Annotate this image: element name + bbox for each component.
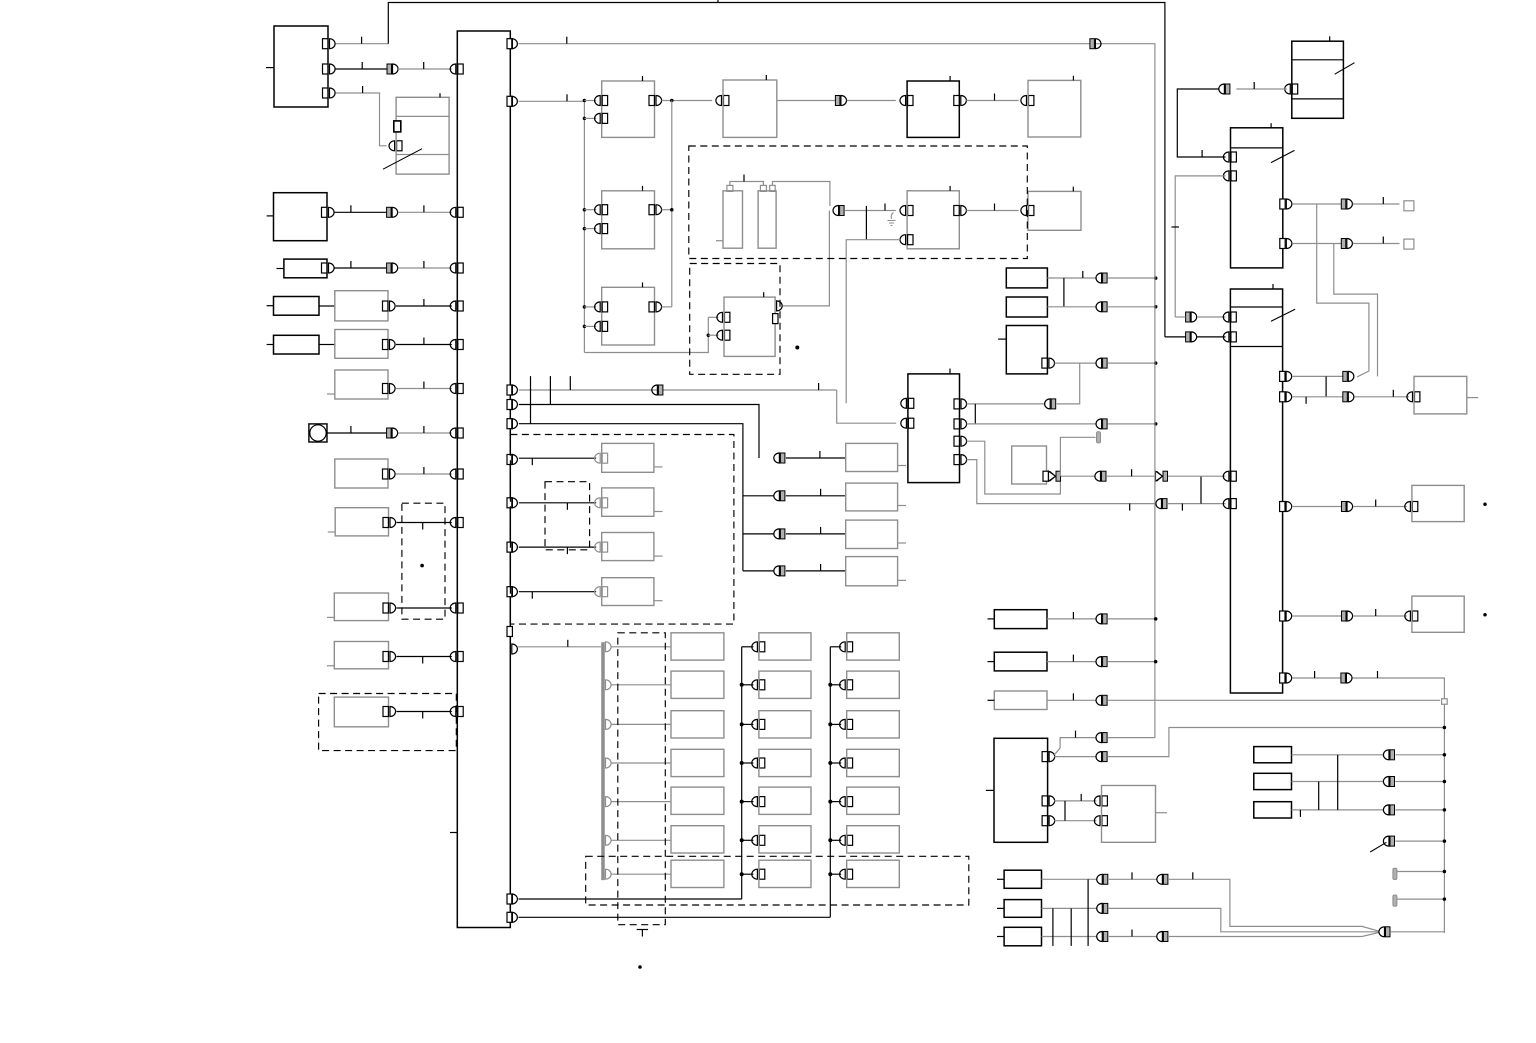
slash T3 [1271,309,1295,321]
connector J/B left 306 [450,301,463,311]
wire E5-E6 [966,94,1018,101]
node dot E-feed 118 [583,117,587,121]
connector C4 in [828,797,852,807]
wire E-link [319,305,335,307]
connector pair E2-E5 [835,96,846,106]
wire E8-E9 [966,204,1018,211]
wire Y1 b [1169,872,1380,931]
connector T2 out1 [1280,199,1292,209]
sensor Y3 [997,927,1042,946]
actuator G20 [846,443,898,471]
load V3 [1412,596,1464,632]
slash T1 [1335,63,1355,74]
wire to G3 [786,489,846,496]
terminal E7 out [773,301,783,324]
module R3 [998,326,1047,374]
bar tap 0 [606,642,672,652]
junction sq P3 [1442,699,1448,705]
wire E-feed elbow [584,317,708,352]
relay L [327,642,389,669]
connector pair M1 [1045,399,1056,409]
connector V2 in [1405,502,1418,512]
node dot 841 [1443,839,1447,843]
connector T1 in [1285,84,1298,94]
load V1 [1414,376,1467,414]
connector E1 in1 [584,96,607,106]
connector E4 in2 [584,321,607,331]
connector R3 out [1042,358,1055,368]
wire bus-G12 [519,547,596,554]
wire E-col2 vertical [671,101,673,307]
capacitor C1 [723,185,743,248]
connector pair G3 [774,491,785,501]
bar tap 5 [606,835,672,845]
connector pair X1 [1383,750,1394,760]
connector pair T2o1 [1341,199,1352,209]
wire U1 out1 [1054,756,1096,758]
dashed box DB4 [586,856,969,905]
stub V1 [1467,397,1478,399]
connector E7 in2 [708,330,730,340]
connector J/B right 917 [507,912,517,922]
connector J/B left 711 [450,707,463,717]
node dot E7 in2 [707,333,711,337]
connector E6 in [1021,96,1034,106]
lamp B3 [759,749,811,776]
connector pair Y1a [1097,874,1108,884]
connector T2 in1 [1223,152,1236,162]
connector E2 in [716,96,729,106]
connector E2 [383,301,396,311]
wire T2 in2 [1172,176,1226,317]
horn H [309,424,327,442]
slash T2 [1271,150,1295,162]
wire bus899 [519,898,742,900]
module T2 [1231,123,1283,268]
wire R2 [1047,306,1096,308]
wire M4 [967,460,1156,511]
wire X2 [1292,781,1385,783]
connector pair Y3b [1157,932,1168,942]
node dot P2 [1154,660,1158,664]
connector C2 in [828,719,852,729]
connector L [383,652,396,662]
lamp A0 [671,633,724,660]
stub G12 [654,555,663,557]
lamp C0 [847,633,900,660]
dashed box DB1 [689,146,1028,259]
connector J/B right 547 [507,542,517,552]
wire Y3 b [1169,932,1380,936]
wire bus917 [519,916,831,918]
wire T2 out1 [1293,203,1341,205]
connector pair R2 [1096,302,1107,312]
connector M out1 [954,399,967,409]
bridge U [1064,801,1066,821]
lamp A1 [671,671,724,698]
connector T3 out1 [1280,371,1292,381]
connector J/B left 388 [450,384,463,394]
connector pair M2 [1096,419,1107,429]
wire R4 stub up [1060,437,1095,476]
wire U1-U2 b [1054,820,1096,822]
lamp B0 [759,633,811,660]
connector G11 in [595,498,608,508]
lamp C6 [847,860,900,887]
node dot 871 [1443,870,1447,874]
connector J/B right 404 [507,400,517,410]
connector M out2 [954,419,967,429]
connector C3 in [828,758,852,768]
wire E2-E5 [777,100,836,102]
connector E9 in [1021,206,1034,216]
wire bus44 long [519,37,1155,738]
resistor P2 [988,652,1048,671]
sensor G12 [602,533,654,561]
connector J/B right 503 [507,498,517,508]
wire bus-to-E1 [519,94,585,101]
connector C [322,207,335,217]
connector pair T2o2 [1341,239,1352,249]
stub G22 [898,542,906,544]
connector pair C [387,207,398,217]
wire branch G5 [743,570,775,572]
lamp C5 [847,826,900,853]
stub G11 [654,511,663,513]
sensor G10 [602,443,654,472]
connector C0 in [830,642,852,652]
terminal cap 871 [1393,868,1397,879]
connector U1 out2 [1042,796,1055,806]
wire U1b b [1108,728,1444,757]
wire P1 b [1108,618,1156,620]
wire D [335,261,387,268]
stub 570 [569,376,571,390]
wire T3 out4 [1293,615,1342,617]
fuse X1 [1254,747,1292,763]
module E4 [602,282,655,345]
wire E2 [396,299,452,306]
lamp B4 [759,787,811,814]
module E1 [602,76,655,137]
wire col3 vertical [829,647,831,918]
bar tap 6 [606,869,672,879]
wire loop B [1334,244,1378,377]
lamp C2 [847,711,900,738]
lamp A4 [671,787,724,814]
wire bus390 [519,389,837,391]
connector F2 [383,340,396,350]
lamp C4 [847,787,900,814]
connector pair 44 [1090,39,1101,49]
wire A2 [336,62,388,69]
bridge T3o [1325,376,1327,396]
module E5 [907,76,959,137]
node dot DB2 [795,346,799,350]
component E [267,297,319,316]
connector E3 in2 [584,224,607,234]
slash switch B [383,149,422,170]
wire Db [398,261,452,268]
connector E8 in2 [900,235,913,245]
node dot E-feed 306 [583,305,587,309]
wire E4 out [662,306,672,308]
connector E5 out [954,96,967,106]
wire 841 [1396,840,1445,842]
terminal stub cap [1097,432,1101,443]
stub G13 [654,600,663,602]
connector pair H [387,428,398,438]
bar tap 4 [606,797,672,807]
connector B3 in [740,758,765,768]
connector T3 in 337 [1223,332,1236,342]
wire P2 b [1108,661,1156,663]
connector pair X2 [1383,777,1394,787]
connector J/B left 268 [450,263,463,273]
wire bus390 b [819,383,897,423]
load V2 [1412,485,1464,521]
connector pair P2 [1096,657,1107,667]
relay E2 [335,291,388,321]
wire R3 [1054,362,1096,364]
module A [266,26,328,107]
connector J/B right 592 [507,587,517,597]
wire E8 in2 [846,240,900,404]
connector V3 in [1405,611,1418,621]
lamp B1 [759,671,811,698]
relay G [327,370,388,399]
connector pair G5 [774,566,785,576]
wire X1 b [1396,754,1445,756]
connector X mid [1156,471,1168,481]
connector B-in [389,141,402,151]
relay I [335,459,388,488]
power bar [601,642,605,880]
resistor R1 [1006,268,1047,288]
terminal B top-left [394,121,401,132]
wire P1 [1047,612,1097,619]
connector pair D [387,263,398,273]
wire E2-E5 b [847,100,896,102]
sensor Y2 [997,900,1042,918]
connector pair T1 [1219,84,1230,94]
connector B0 in [742,642,765,652]
connector J/B left 344 [450,340,463,350]
node dot E-feed 100 [583,99,587,103]
actuator G21 [846,483,898,511]
bridge R12 [1063,278,1065,307]
capacitor C2 [758,185,776,248]
wire A1 to top bus [336,37,389,44]
wire X1 [1292,754,1385,756]
connector pair tank-out [833,206,844,216]
connector A-2 [323,64,336,74]
wire U1 hook [1054,731,1096,755]
wire U1-U2 a [1054,794,1096,801]
sensor Y1 [997,870,1042,888]
wire bus-bar [518,640,601,647]
dashed group N [402,503,445,619]
wire T1 in [1236,82,1286,89]
connector J/B left 212 [450,207,463,217]
bridge Y2 [1070,908,1072,946]
wire M [397,712,452,719]
wire to G2 [786,451,846,458]
connector pair R4 [1095,471,1106,481]
bridge X a [1318,782,1320,810]
connector A-1 [323,39,336,49]
wire E8 in1 [845,204,896,211]
node dot X1 [1443,753,1447,757]
wire Hb [398,426,452,433]
module U2 [1102,786,1156,843]
node dot M2 [1154,422,1158,426]
module E3 [602,186,655,249]
resistor R2 [1006,297,1047,317]
lamp A2 [671,711,724,738]
connector E3 in1 [584,205,607,215]
wire E7 out [783,211,830,306]
bar tap 1 [606,680,672,690]
wire T3 out2 [1293,397,1343,404]
lamp A5 [671,826,724,853]
wire bus-G13 [519,592,596,599]
bar tap 3 [606,758,672,768]
wire E-feed vertical [583,101,585,353]
connector pair Y2a [1097,903,1108,913]
connector M in2 [901,418,914,428]
wire 317 [1175,316,1225,318]
connector J/B right 101 [507,96,517,106]
wire X3 b [1396,809,1445,811]
connector T3 out3 [1280,502,1292,512]
stub 530 [530,376,532,424]
connector E4 in1 [584,302,607,312]
wire M3 [967,441,1061,494]
node dot E1 out [670,99,674,103]
wire U1a b [1108,737,1155,739]
connector E5 in [900,96,913,106]
wire T1-T2 [1177,89,1225,157]
junction block J/B [457,31,510,928]
connector C5 in [828,835,852,845]
wire R4 b [1107,469,1155,476]
wire Y2 b [1109,908,1380,931]
component F [267,335,319,354]
component D [277,259,328,278]
resistor P1 [988,610,1048,629]
lamp A6 [671,860,724,887]
wire loop A [1317,204,1369,377]
wire M2 b [1108,423,1156,425]
connector C1 in [828,680,852,690]
tick C1 stub [716,240,723,242]
wire A3 to module B [336,86,387,146]
wire C [335,205,387,212]
connector J/B right 459 [507,455,517,465]
connector M out4 [954,455,967,465]
connector J/B left 608 [450,603,463,613]
connector pair P1 [1096,614,1107,624]
connector pair A2 [387,64,398,74]
connector T2 out2 [1280,239,1292,249]
terminal sq 243 [1404,239,1414,249]
wire T2 out2 b [1353,237,1400,244]
sensor G13 [602,578,654,606]
connector pair 841 [1383,836,1394,846]
tick J/B left [450,832,457,834]
terminal R4 out [1043,471,1048,481]
connector A-3 [323,88,336,98]
connector pair R3 [1096,358,1107,368]
node dot X3 [1443,808,1447,812]
connector pair P3 [1096,695,1107,705]
module E2 [723,75,777,137]
wire G [396,382,452,389]
wire Y3 [1042,936,1098,938]
wire Y1 [1042,878,1098,880]
dashed box DB5 [618,633,666,925]
node dot 899r [1443,897,1447,901]
connector pair M4 [1156,499,1167,509]
connector pair Y1b [1157,874,1168,884]
wire C1-C2 top [730,175,764,186]
connector U1 out1 [1042,752,1055,762]
wire T3 out4 b [1353,609,1407,616]
wire L [397,657,452,664]
connector E4 out [649,302,662,312]
module U1 [986,738,1048,842]
terminal cap 899 [1393,895,1397,906]
lamp B5 [759,826,811,853]
node dot E3 out [670,208,674,212]
wire C2 top out [773,182,830,207]
wire T3 out3 [1293,506,1342,508]
node dot 967 [638,965,642,969]
wire A2b [398,62,452,69]
connector J [383,518,396,528]
wire Y2 [1042,907,1098,909]
connector T3 out5 [1280,673,1292,683]
wire T3 out2 b [1354,390,1409,397]
wire Y merged [1391,931,1444,933]
connector J/B left 433 [450,428,463,438]
wire M4 b [1168,504,1225,511]
node dot R3 [1154,361,1158,365]
relay J [328,508,389,536]
connector pair T3o2 [1343,392,1354,402]
connector B6 in [740,869,765,879]
connector pair T3o1 [1343,371,1354,381]
connector J/B right 44 [507,39,517,49]
connector pair X3 [1383,805,1394,815]
lamp B6 [759,860,811,887]
wire col2 vertical [741,647,743,899]
connector G [383,384,396,394]
wire branch G3 [743,495,775,497]
connector T2 in2 [1223,171,1236,181]
wire T3 out1 [1293,375,1343,377]
wire branch G4 [743,533,775,535]
wire P3 b [1108,699,1440,701]
connector pair U1b [1096,752,1107,762]
bridge 1201 [1200,476,1202,503]
node dot V3 [1483,613,1487,617]
relay F2 [335,330,388,359]
wire T2 out1 b [1353,197,1400,204]
dashed group M [319,694,457,751]
wire Cb [398,205,452,212]
